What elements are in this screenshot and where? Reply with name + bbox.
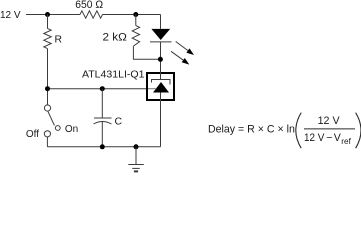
wire: top 12V rail left segment (26, 14, 80, 16)
shunt regulator U1 ATL431LI-Q1 box (147, 73, 174, 100)
U1 internal REF stub (148, 88, 157, 90)
switch S1 bottom contact (44, 131, 50, 137)
wire: U1 anode down to ground rail (160, 93, 162, 147)
wire: R branch top lead (47, 15, 49, 29)
switch S1 top contact (44, 105, 50, 111)
wire: LED anode lead from top rail (160, 15, 162, 29)
switch S1 arm (48, 111, 55, 125)
resistor 650 ohm (zigzag on top rail) (80, 11, 103, 18)
resistor 2 kΩ (vertical zigzag) (132, 26, 139, 46)
switch S1 ON position circle (55, 126, 60, 131)
svg-text:Off: Off (26, 129, 39, 140)
U1 internal anode triangle (153, 82, 169, 93)
resistor R (vertical zigzag) (44, 28, 51, 48)
wire: LED cathode to junction (160, 42, 162, 72)
svg-text:12 V: 12 V (318, 115, 341, 127)
LED D1 triangle (anode) (151, 29, 170, 40)
svg-text:12 V−V: 12 V−V (304, 132, 342, 144)
wire: REF rail (48, 88, 147, 90)
svg-text:2 kΩ: 2 kΩ (103, 32, 127, 44)
LED emission arrow 1 (176, 42, 188, 51)
wire: 2k branch top lead (135, 15, 137, 26)
junction dot top rail / 2k branch (133, 12, 138, 17)
svg-text:Delay = R × C × ln: Delay = R × C × ln (208, 123, 295, 135)
svg-text:On: On (65, 124, 78, 135)
junction dot REF rail / capacitor branch (100, 86, 105, 91)
wire: U1 cathode internal segment (160, 72, 162, 80)
svg-text:12 V: 12 V (0, 10, 21, 21)
capacitor C curved bottom plate (94, 122, 112, 125)
svg-text:650 Ω: 650 Ω (75, 0, 103, 11)
wire: capacitor bottom lead (101, 122, 103, 147)
junction dot top rail / R branch (45, 12, 50, 17)
formula: Delay = R x C x ln(12V/(12V-Vref)) (208, 113, 361, 149)
big right parenthesis (356, 113, 361, 149)
capacitor C top plate (94, 117, 112, 119)
svg-text:ref: ref (341, 137, 351, 146)
wire: R bottom to REF rail (47, 49, 49, 105)
svg-text:R: R (55, 35, 63, 46)
wire: bottom ground rail (47, 146, 160, 148)
svg-text:C: C (115, 115, 123, 127)
junction dot REF rail / switch branch (45, 86, 50, 91)
U1 internal cathode bar with bent ends (152, 80, 171, 85)
wire: top 12V rail right segment (103, 14, 161, 16)
wire: switch bottom to ground rail (46, 137, 48, 147)
junction dot ground rail / capacitor (100, 144, 105, 149)
fraction bar (304, 128, 355, 130)
wire: 2k bottom jog to LED node (133, 46, 160, 59)
svg-text:ATL431LI-Q1: ATL431LI-Q1 (82, 69, 145, 80)
wire: capacitor top lead (101, 89, 103, 118)
LED emission arrow 2 (171, 51, 183, 60)
big left parenthesis (296, 113, 301, 149)
ground symbol (135, 147, 137, 165)
junction dot ground rail / ground symbol (134, 144, 139, 149)
junction dot LED cathode / 2k (158, 57, 163, 62)
LED D1 cathode bar (150, 41, 172, 43)
